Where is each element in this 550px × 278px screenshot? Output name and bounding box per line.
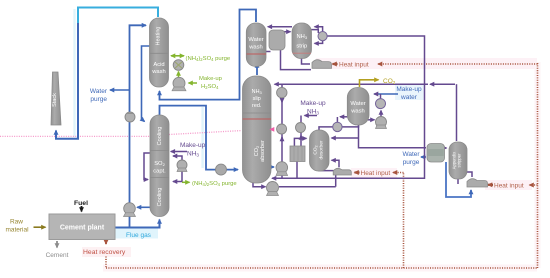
wire: make-up h2so4 arrow	[189, 82, 198, 84]
wire: arrow up into P10	[300, 136, 302, 139]
svg-text:water: water	[400, 94, 418, 101]
wire: condenser bottom reflux to strip	[315, 41, 323, 43]
pump P11	[276, 162, 288, 176]
wire: heat input 3 dotted arrow	[530, 184, 538, 186]
wire: make-up NH3 1 arrow	[171, 151, 187, 153]
column appendix stripper	[449, 142, 467, 179]
wire: rich line pump P10 to H2	[300, 116, 302, 147]
svg-text:Make-up: Make-up	[180, 142, 206, 149]
svg-text:wash: wash	[350, 109, 365, 115]
highlight heat input 2	[351, 168, 397, 178]
label make-up h2so4	[199, 76, 223, 90]
svg-text:Heat input: Heat input	[361, 170, 391, 177]
svg-text:stripper: stripper	[457, 153, 462, 168]
wire: water wash 2 side outlet to condenser P12	[340, 116, 348, 118]
pump P7	[267, 182, 279, 196]
wire: water wash 2 bottom to exchanger H3	[359, 124, 427, 148]
pump P1	[125, 112, 135, 122]
wire: water wash 1 top to acid wash bottom	[160, 10, 257, 100]
wire: pump P3 P4 green vertical	[178, 72, 180, 78]
wire: heat input 3 solid arrow	[488, 184, 493, 186]
wire: raw material arrow	[34, 226, 46, 228]
wire: co2 product yellow	[360, 80, 379, 87]
svg-text:Water: Water	[350, 101, 365, 107]
svg-text:Raw: Raw	[10, 219, 23, 226]
wire: heating bottom to cooling top	[142, 46, 151, 122]
label water purge 1	[90, 88, 108, 103]
column heating acid wash	[150, 18, 169, 87]
wire: heat input 2 solid arrow	[355, 171, 360, 173]
svg-text:slip: slip	[253, 96, 261, 102]
wire: condenser top reflux to strip	[315, 27, 323, 32]
svg-text:Cement: Cement	[46, 252, 69, 259]
wire: make-up water into water wash 2	[374, 93, 398, 95]
wire: cooling bottom to pump P2	[137, 206, 150, 208]
pump P3	[173, 60, 184, 71]
label make-up nh3 1	[180, 142, 206, 158]
chiller P14	[376, 99, 386, 109]
wire: flue gas cement to cooling	[114, 220, 160, 228]
reboiler K2	[333, 168, 351, 175]
exchanger H3	[427, 144, 445, 163]
wire: H1 to strip	[284, 31, 291, 33]
pump P10	[296, 123, 306, 133]
highlight flue gas	[115, 229, 158, 239]
svg-text:Heat input: Heat input	[494, 182, 524, 189]
wire: heat input 2 dotted vertical	[403, 173, 405, 269]
svg-text:NH3: NH3	[307, 109, 319, 116]
svg-text:purge: purge	[403, 159, 420, 166]
svg-text:strip: strip	[296, 44, 307, 50]
svg-text:SO2: SO2	[154, 161, 165, 167]
svg-text:Water: Water	[402, 151, 420, 158]
wire: heat loop dotted right border	[537, 62, 539, 268]
highlight make-up water	[395, 85, 424, 100]
svg-text:CO2: CO2	[383, 78, 396, 85]
svg-text:absorber: absorber	[260, 140, 266, 162]
wire: heat recovery dotted down	[105, 257, 107, 269]
pink dotted boundary line	[0, 135, 152, 137]
column nh3 strip	[292, 23, 312, 59]
wire: clean gas to stack blue part	[56, 23, 78, 139]
svg-text:Heat recovery: Heat recovery	[83, 249, 126, 256]
svg-text:Cement plant: Cement plant	[60, 225, 105, 232]
condenser P13	[318, 31, 327, 40]
svg-text:NH3: NH3	[187, 151, 199, 158]
column cooling so2 cooling	[150, 115, 169, 217]
wire: desorber bottom to reboiler K2	[319, 167, 334, 171]
wire: water purge 2	[421, 156, 426, 158]
wire: water purge 1	[110, 89, 130, 91]
svg-text:purge: purge	[90, 96, 107, 103]
wire: lean solvent continue to column top	[275, 83, 429, 85]
pump P2	[124, 203, 136, 217]
svg-text:H2SO4: H2SO4	[201, 84, 219, 90]
wire: absorber top to water wash 1	[256, 64, 258, 76]
wire: heat input 2 dotted arrow	[393, 172, 404, 174]
stack	[51, 72, 61, 125]
wire: wash pump chain vertical	[281, 84, 283, 176]
wire: cooling pumparound U	[144, 153, 150, 180]
svg-text:desorber: desorber	[319, 140, 325, 159]
svg-text:Water: Water	[248, 37, 263, 43]
wire: P15 to chiller P14	[380, 111, 382, 117]
fan P6	[216, 164, 227, 175]
wire: appendix stripper bottom to reboiler K3	[467, 172, 472, 177]
reboiler K1	[312, 60, 332, 69]
svg-text:Cooling: Cooling	[157, 188, 163, 207]
wire: water wash1 to H1	[266, 51, 271, 53]
wire: water wash2 to pump P15	[368, 119, 375, 121]
svg-text:NH3: NH3	[296, 34, 307, 40]
svg-text:Make-up: Make-up	[199, 76, 223, 82]
svg-text:(NH4)2SO4 purge: (NH4)2SO4 purge	[192, 181, 237, 187]
wire: exchanger H3 to appendix stripper	[441, 147, 447, 149]
wire: heat input 1 solid arrow	[333, 63, 338, 65]
wire: reboiler K2 vapor return to desorber	[332, 160, 340, 167]
svg-text:Flue gas: Flue gas	[126, 232, 152, 239]
pump P9	[277, 124, 287, 134]
wire: pump chain to bus	[281, 176, 283, 178]
wire: fuel arrow	[81, 206, 83, 212]
wire: exchanger H3 to appendix reboiler blue	[446, 162, 471, 197]
label water purge 2	[402, 151, 420, 166]
column water wash 1	[246, 23, 266, 66]
highlight heat input 1	[316, 58, 537, 69]
wire: chiller to water wash 2 top	[380, 94, 382, 99]
column co2 desorber	[310, 130, 330, 171]
wire: strip vapor to condenser	[312, 30, 319, 33]
label raw material	[5, 219, 29, 234]
cement plant box	[49, 214, 115, 240]
exchanger H2	[290, 146, 305, 162]
wire: desorber overhead to water wash 2	[319, 122, 359, 130]
label make-up water	[396, 86, 422, 101]
pink dotted boundary line sloped part	[169, 131, 241, 135]
reboiler K3	[467, 179, 488, 187]
wire: water riser pump to heating top	[130, 25, 147, 227]
svg-text:material: material	[5, 227, 29, 234]
svg-text:NH3: NH3	[252, 89, 263, 95]
wire: so4 purge 2 green	[182, 181, 190, 183]
svg-text:Heat input: Heat input	[339, 62, 369, 69]
wire: so4 purge 1 green right arrow	[171, 55, 184, 57]
wire: chain arrow up 2	[281, 137, 283, 142]
svg-text:Fuel: Fuel	[74, 200, 88, 207]
wire: absorber bottom to pump P7	[253, 183, 266, 187]
wire: cooled gas cooling top to absorber	[160, 106, 239, 170]
wire: ww2 downleg reflux into desorber	[332, 137, 359, 139]
wire: clean gas to stack cyan part	[78, 8, 158, 25]
wire: H1 bottom to strip reboiler	[281, 50, 312, 70]
pump P8	[277, 87, 287, 97]
svg-text:Make-up: Make-up	[396, 86, 422, 93]
wire: make-up NH3 2 arrow	[305, 115, 318, 117]
wire: heat input 1 dotted	[378, 63, 538, 65]
wire: H2 top elbow rich feed to desorber	[294, 138, 306, 146]
wire: strip bottom to reboiler K1	[302, 58, 311, 64]
wire: appendix stripper bottom drain	[457, 179, 459, 185]
exchanger H1	[269, 30, 285, 50]
wire: P5 top to column arrow	[173, 156, 182, 160]
svg-text:(NH4)2SO4 purge: (NH4)2SO4 purge	[186, 56, 231, 62]
svg-text:Water: Water	[90, 88, 108, 95]
wire: condenser overhead recycle long line	[272, 36, 425, 178]
pump P5	[177, 160, 187, 172]
wire: chain arrow down 1	[281, 98, 283, 103]
wire: lean drop to appendix stripper	[456, 84, 458, 141]
wire: so4 purge 1 green	[171, 55, 184, 57]
faint band bottom	[103, 265, 537, 272]
svg-text:capt.: capt.	[153, 169, 166, 175]
column water wash 2	[347, 88, 369, 126]
svg-text:wash: wash	[151, 69, 166, 75]
svg-text:Stack: Stack	[52, 93, 58, 107]
wire: lean solvent long line to absorber top	[430, 83, 455, 85]
highlight heat recovery	[82, 247, 131, 257]
svg-text:Heating: Heating	[156, 27, 162, 46]
svg-text:wash: wash	[248, 45, 263, 51]
wire: condenser P12 top connector	[336, 117, 338, 123]
pump P15	[376, 117, 387, 129]
ghost halo mid vertical	[201, 107, 203, 168]
wire: absorber side draw to P11 blue	[262, 166, 274, 168]
wire: strip to water wash 1	[268, 26, 292, 28]
condenser P12	[333, 122, 342, 131]
wire: P5 bottom riser to column arrow	[173, 171, 182, 182]
ghost halo left vertical	[73, 9, 75, 137]
pump P4	[172, 77, 186, 91]
wire: cement arrow	[56, 241, 58, 248]
label make-up nh3 2	[300, 100, 326, 116]
wire: reboiler K2 bottom drain	[335, 175, 337, 187]
svg-text:red.: red.	[252, 103, 261, 109]
wire: H2 bottom to bus	[296, 161, 298, 178]
svg-text:Acid: Acid	[153, 62, 164, 68]
wire: heat loop dotted bottom	[106, 267, 538, 269]
wire: heat recovery solid arrow	[105, 240, 107, 244]
highlight heat input 3	[485, 180, 532, 190]
column nh3 slip co2 absorber	[243, 76, 272, 183]
svg-text:Make-up: Make-up	[300, 100, 326, 107]
faint band right border	[535, 62, 541, 268]
wire: rich bus2	[279, 186, 336, 188]
pink boundary arrow into absorber	[269, 127, 274, 132]
svg-text:Cooling: Cooling	[157, 127, 163, 146]
